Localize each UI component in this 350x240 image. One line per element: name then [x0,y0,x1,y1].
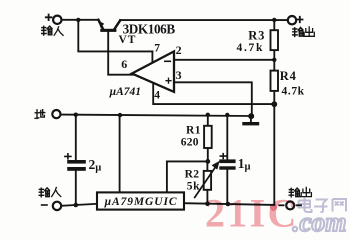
wire pin7 stub [151,51,153,63]
node ground/2u [74,113,78,117]
node 1µ bottom [226,202,231,207]
svg-text:620: 620 [181,137,199,149]
svg-text:VT: VT [119,34,137,46]
capacitor C2 1µ [226,115,228,160]
svg-text:21IC: 21IC [205,191,299,236]
svg-text:.com: .com [293,207,347,237]
wire J1 down to op-amp V+ run [78,20,152,52]
node R2 bottom [205,201,210,206]
svg-text:4: 4 [154,90,160,102]
terminal + output (top right) [288,16,296,24]
ground symbol [250,116,252,122]
svg-text:5k: 5k [187,181,200,193]
terminal - input (bottom left) [53,202,61,210]
网 [333,199,347,212]
op-amp minus mark [165,60,171,62]
svg-text:4.7k: 4.7k [282,86,305,98]
resistor R1 [207,115,209,161]
node J1 [76,18,80,22]
wire base of VT down to op-amp output [108,32,133,75]
op-amp U1 (µA741) triangle [132,51,174,92]
svg-text:3: 3 [176,68,182,82]
label 输入 (top left) [42,26,63,35]
node 2µ bottom [74,203,79,208]
svg-text:µA79MGUIC: µA79MGUIC [104,196,177,208]
bottom left rail [61,204,97,206]
terminal - output (bottom right) [279,204,283,206]
watermark 21IC.com [205,191,347,238]
svg-text:7: 7 [154,43,160,55]
resistor R3 [273,20,275,60]
node R1/R2/control [205,159,210,164]
wire pin2 to R3/R4 node [174,59,274,61]
op-amp plus mark [166,78,171,83]
wire top rail right [120,19,288,21]
子 [314,200,328,213]
resistor R4 [273,60,275,104]
label 输出 (bottom right) [289,187,311,196]
wire top rail left [62,19,99,21]
terminal + input (top left) [53,16,61,24]
svg-text:R2: R2 [185,168,200,180]
wire pin4 down and right to R4 bottom [153,84,274,105]
capacitor C1 2µ [75,115,77,160]
node ground end / pin3 [248,113,254,119]
svg-text:4.7k: 4.7k [237,42,265,54]
label 地 [35,110,45,119]
node ground/R1 [206,113,210,117]
svg-text:6: 6 [121,57,127,71]
wire pin3 right and down to ground node [174,82,252,116]
node R4 bottom / pin4 [271,101,277,107]
node ground/1u [225,113,229,117]
node pin2/R3/R4 [272,58,276,62]
svg-text:µA741: µA741 [109,86,142,98]
node ground/79MG stub [118,113,122,117]
ground rail [61,115,252,116]
svg-text:R4: R4 [280,69,297,83]
svg-text:2: 2 [176,43,182,57]
svg-text:R3: R3 [248,28,265,42]
bottom right rail [184,203,274,205]
label 输出 (top right) [293,27,315,37]
potentiometer R2 [206,161,208,203]
terminal 地 (ground) [52,110,60,118]
svg-text:R1: R1 [186,124,201,136]
wire 79MG ground stub [119,115,121,192]
node R3 top [272,18,276,22]
wire right column down to - output [273,104,275,204]
IC U2 µA79MGUIC box [97,192,184,209]
电 [299,198,312,213]
wire control to 79MG [167,161,208,192]
transistor VT (3DK106B) [98,20,103,29]
label 输入 (bottom left) [39,188,61,197]
